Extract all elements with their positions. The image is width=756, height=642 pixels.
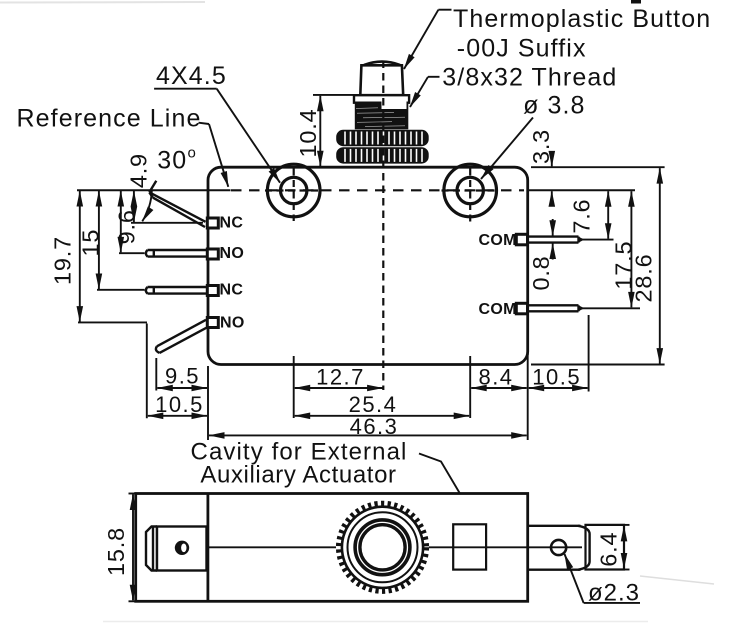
svg-text:15: 15 bbox=[78, 229, 104, 257]
terminal NO4 blade (tilted down) bbox=[156, 320, 206, 353]
plunger hole bbox=[175, 541, 189, 555]
svg-text:15.8: 15.8 bbox=[103, 527, 129, 576]
threaded bushing 3/8x32 bbox=[355, 101, 409, 130]
svg-text:NO: NO bbox=[220, 245, 245, 262]
svg-text:3.3: 3.3 bbox=[528, 129, 554, 164]
terminal NO2 blade bbox=[146, 250, 206, 257]
bottom view centerline bbox=[208, 546, 582, 548]
svg-text:46.3: 46.3 bbox=[350, 414, 399, 439]
scan artifact top right bbox=[631, 0, 641, 4]
bottom view outline bbox=[136, 494, 528, 602]
svg-text:10.5: 10.5 bbox=[155, 392, 204, 417]
dimension 25.4 bbox=[295, 356, 471, 418]
terminal NC1 tab bbox=[207, 218, 218, 228]
svg-text:COM: COM bbox=[479, 232, 517, 249]
dimension 9.6 bbox=[119, 191, 145, 253]
terminal NC3 blade bbox=[146, 287, 206, 294]
leader Reference Line bbox=[199, 123, 229, 187]
dimension 15 bbox=[97, 191, 145, 290]
terminal hole dia 2.3 bbox=[551, 540, 566, 555]
dimension 4.9 bbox=[131, 191, 203, 223]
terminal COM1 blade bbox=[528, 237, 584, 243]
dimension 8.4 bbox=[471, 387, 527, 389]
mounting hole right bbox=[444, 164, 497, 217]
svg-text:NC: NC bbox=[220, 281, 244, 298]
cavity square bbox=[453, 524, 486, 569]
svg-text:COM: COM bbox=[479, 301, 517, 318]
hole right crosshair bbox=[442, 169, 499, 226]
svg-text:19.7: 19.7 bbox=[50, 236, 76, 285]
svg-text:4X4.5: 4X4.5 bbox=[156, 62, 227, 90]
svg-text:NC: NC bbox=[220, 214, 244, 231]
hole left crosshair bbox=[265, 169, 322, 222]
switch body outline (top view) bbox=[208, 167, 528, 364]
dimension 17.5 bbox=[581, 191, 640, 308]
terminal COM2 blade bbox=[528, 305, 584, 311]
thermoplastic button cap bbox=[360, 62, 403, 96]
reference line left extension bbox=[77, 189, 231, 191]
dimension 9.5 (left) bbox=[156, 358, 207, 391]
svg-text:ø2.3: ø2.3 bbox=[588, 580, 640, 607]
svg-text:ø 3.8: ø 3.8 bbox=[523, 92, 585, 120]
svg-text:10.5: 10.5 bbox=[532, 364, 581, 389]
svg-text:4.9: 4.9 bbox=[126, 153, 152, 188]
button centerline (dashed) bbox=[382, 61, 384, 391]
svg-text:7.6: 7.6 bbox=[569, 199, 595, 234]
svg-text:NO: NO bbox=[220, 314, 245, 331]
leader dia 2.3 bbox=[565, 554, 641, 603]
svg-text:Reference Line: Reference Line bbox=[17, 105, 202, 133]
dimension 10.5 (right) bbox=[529, 315, 589, 392]
mounting hole left bbox=[267, 164, 320, 217]
reference line right extension bbox=[528, 189, 635, 191]
dimension 15.8 bbox=[129, 494, 138, 602]
svg-text:o: o bbox=[188, 145, 196, 162]
knurled bushing (bottom view) bbox=[336, 501, 429, 594]
knurled nut row 2 bbox=[336, 147, 429, 163]
svg-text:-00J Suffix: -00J Suffix bbox=[457, 35, 587, 63]
button flange bbox=[354, 95, 409, 103]
dimension 3.3 bbox=[551, 152, 553, 205]
terminal COM2 tab bbox=[516, 303, 527, 314]
svg-text:Auxiliary Actuator: Auxiliary Actuator bbox=[200, 462, 396, 489]
svg-text:30: 30 bbox=[157, 146, 187, 174]
terminal NC3 tab bbox=[207, 286, 218, 296]
svg-text:3/8x32 Thread: 3/8x32 Thread bbox=[442, 64, 617, 92]
svg-text:9.6: 9.6 bbox=[113, 209, 139, 244]
leader 4X4.5 bbox=[154, 89, 280, 183]
plunger cap (bottom view) bbox=[146, 527, 207, 571]
terminal NO4 tab bbox=[207, 318, 218, 328]
scan artifact faint lines bbox=[0, 1, 205, 4]
terminal COM1 tab bbox=[516, 234, 527, 245]
svg-text:6.4: 6.4 bbox=[596, 532, 622, 567]
knurled nut row 1 bbox=[336, 130, 429, 146]
svg-text:28.6: 28.6 bbox=[630, 254, 656, 303]
leader dia 3.8 bbox=[481, 118, 533, 180]
angle dimension 30 deg arc bbox=[142, 191, 152, 221]
dimension 6.4 bbox=[620, 525, 630, 570]
dimension 10.5 (left) bbox=[147, 324, 207, 419]
svg-text:10.4: 10.4 bbox=[295, 109, 321, 158]
side terminal blade (bottom view) bbox=[528, 525, 624, 570]
leader Thermoplastic Button bbox=[404, 10, 452, 69]
svg-text:Thermoplastic Button: Thermoplastic Button bbox=[453, 5, 711, 33]
leader 3/8x32 Thread bbox=[410, 77, 440, 107]
dimension 19.7 bbox=[78, 191, 147, 322]
dimension 0.8 bbox=[552, 219, 554, 260]
reference line (dashed through holes) bbox=[231, 189, 524, 191]
svg-text:8.4: 8.4 bbox=[478, 364, 513, 389]
terminal NC1 blade (tilted 30deg) bbox=[149, 181, 205, 227]
dimension 28.6 bbox=[531, 167, 665, 364]
dimension 12.7 bbox=[294, 356, 383, 418]
dimension 46.3 bbox=[208, 351, 528, 440]
terminal NO2 tab bbox=[207, 249, 218, 259]
svg-text:0.8: 0.8 bbox=[528, 255, 554, 290]
svg-text:12.7: 12.7 bbox=[316, 364, 365, 389]
dimension 7.6 bbox=[581, 191, 614, 239]
svg-text:9.5: 9.5 bbox=[165, 364, 200, 389]
dimension 10.4 bbox=[313, 95, 356, 166]
leader cavity bbox=[419, 454, 475, 520]
